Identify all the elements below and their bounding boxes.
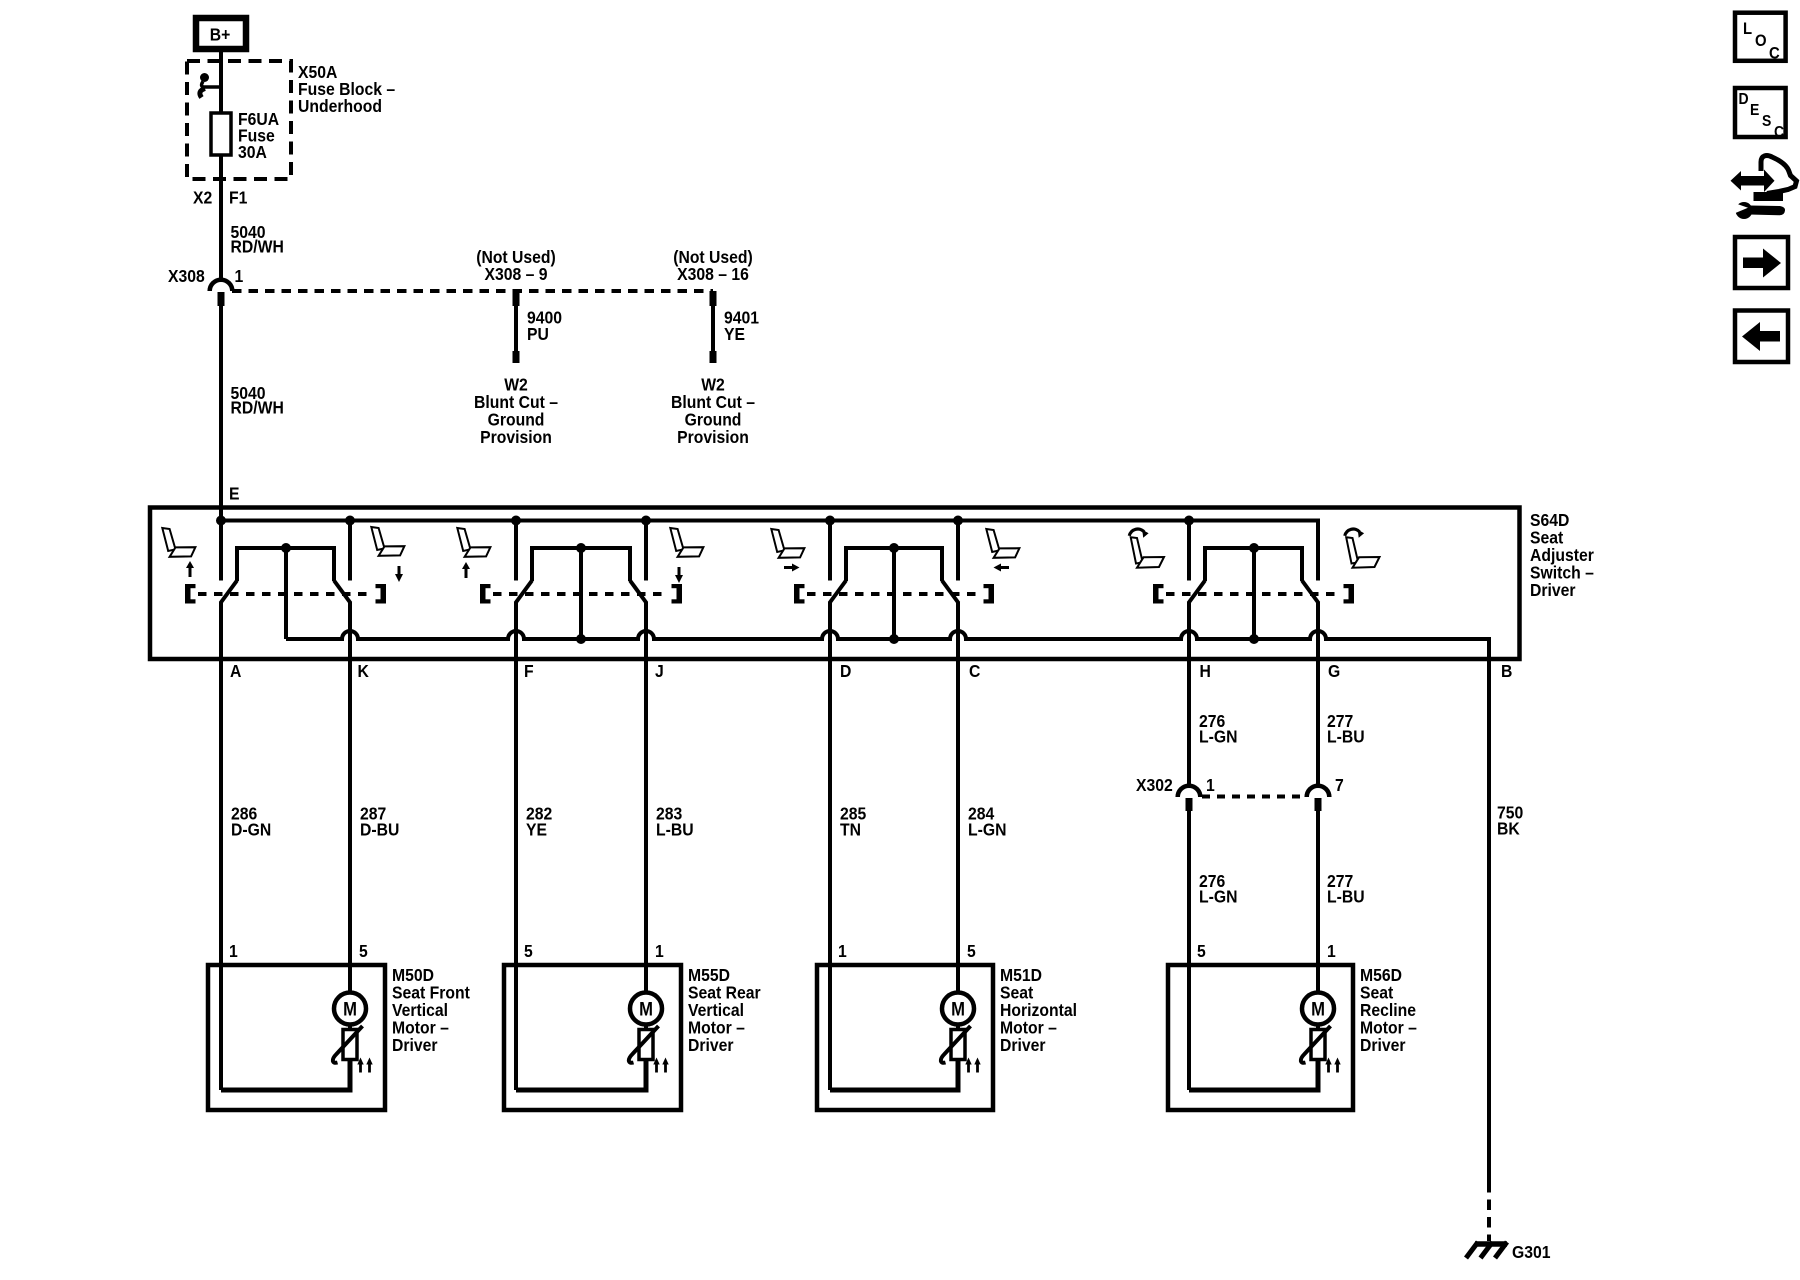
nav icon diagnostics (arrows + wrench) xyxy=(1731,156,1797,219)
svg-text:M: M xyxy=(343,998,357,1019)
B+ contact stub at x=350 xyxy=(348,521,352,581)
switch unit 3 pole to ground bus xyxy=(892,548,896,639)
svg-text:1: 1 xyxy=(655,941,664,961)
svg-text:5: 5 xyxy=(967,941,976,961)
connector X302 pin 1 symbol xyxy=(1178,786,1201,811)
down arrow (switch 1 right) xyxy=(395,566,403,582)
switch unit 4 right blade xyxy=(1302,581,1319,604)
rail junction at x=350 xyxy=(345,516,355,526)
switch unit 4 left actuator bracket xyxy=(1153,584,1164,604)
switch unit 3 carrier junction dot xyxy=(889,543,899,553)
svg-text:D-BU: D-BU xyxy=(360,820,399,840)
switch unit 1 actuator dashed link xyxy=(198,592,373,596)
wire 277 L-BU label (upper) xyxy=(1327,711,1365,747)
switch unit 2 ground bus junction dot xyxy=(576,634,586,644)
svg-text:PU: PU xyxy=(527,324,549,344)
svg-text:L-GN: L-GN xyxy=(1199,727,1237,747)
seat up icon (switch 1 left) xyxy=(162,528,195,557)
svg-text:C: C xyxy=(1769,45,1780,63)
switch unit 4 left blade xyxy=(1189,581,1206,604)
rail junction at x=516 xyxy=(511,516,521,526)
wire 276 L-GN label (upper) xyxy=(1199,711,1237,747)
switch unit 1 (front vertical) contact carrier xyxy=(237,548,334,581)
bussed connection hook inside fuse block xyxy=(200,73,221,98)
svg-text:Underhood: Underhood xyxy=(298,96,382,116)
svg-text:YE: YE xyxy=(526,820,547,840)
svg-text:G301: G301 xyxy=(1512,1242,1551,1262)
nav icon DESC xyxy=(1735,88,1786,141)
motor M50D internal wire xyxy=(221,1060,350,1091)
switch unit 3 left blade xyxy=(830,581,847,604)
motor M51D internal wire xyxy=(830,1060,958,1091)
B+ contact stub at x=1189 xyxy=(1187,521,1191,581)
svg-text:E: E xyxy=(229,484,240,504)
up arrow (switch 2 left) xyxy=(462,562,470,578)
wire from switch pin D xyxy=(828,602,832,1091)
motor M56D internal wire xyxy=(1189,1060,1318,1091)
svg-text:5: 5 xyxy=(359,941,368,961)
svg-text:30A: 30A xyxy=(238,142,267,162)
svg-text:B+: B+ xyxy=(210,25,231,45)
wire 750 BK label xyxy=(1497,803,1523,839)
svg-text:Provision: Provision xyxy=(677,427,749,447)
connector X308 pin 1 symbol xyxy=(210,280,233,306)
wire from B+ into fuse block xyxy=(219,49,223,281)
rail junction at x=958 xyxy=(953,516,963,526)
B+ contact stub at x=516 xyxy=(514,521,518,581)
switch unit 2 left actuator bracket xyxy=(480,584,491,604)
X302 internal dashed link xyxy=(1202,795,1305,799)
svg-text:M: M xyxy=(639,998,653,1019)
wire from switch pin J xyxy=(644,602,648,993)
motor M55D thermal arrows xyxy=(653,1058,668,1073)
up arrow (switch 1 left) xyxy=(186,561,194,577)
svg-text:F: F xyxy=(524,661,534,681)
svg-text:D-GN: D-GN xyxy=(231,820,271,840)
wire 283 L-BU label xyxy=(656,804,694,840)
connector X302 pin 7 symbol xyxy=(1307,786,1330,811)
motor M50D motor symbol M xyxy=(334,993,366,1025)
rail junction at x=1189 xyxy=(1184,516,1194,526)
rail junction at x=830 xyxy=(825,516,835,526)
switch unit 3 ground bus junction dot xyxy=(889,634,899,644)
svg-text:D: D xyxy=(1739,90,1749,108)
nav icon LOC xyxy=(1735,13,1786,63)
motor M50D thermal protector xyxy=(333,1025,363,1063)
svg-text:X302: X302 xyxy=(1136,775,1173,795)
svg-text:L-GN: L-GN xyxy=(968,820,1006,840)
motor M50D outline xyxy=(208,965,385,1110)
fuse F6UA 30A xyxy=(211,113,231,155)
svg-text:BK: BK xyxy=(1497,819,1520,839)
X308 pin 9 stub and wire 9400 xyxy=(513,291,520,363)
switch unit 3 right actuator bracket xyxy=(984,584,995,604)
svg-text:X308 – 9: X308 – 9 xyxy=(484,264,547,284)
svg-text:X308 – 16: X308 – 16 xyxy=(677,264,749,284)
switch unit 1 carrier junction dot xyxy=(281,543,291,553)
B+ contact stub at x=958 xyxy=(956,521,960,581)
switch unit 4 pole to ground bus xyxy=(1252,548,1256,639)
seat up icon (switch 2 left) xyxy=(457,528,490,557)
rail junction at x=221 xyxy=(216,516,226,526)
ground G301 symbol xyxy=(1466,1242,1507,1258)
wire from switch pin A xyxy=(219,602,223,1091)
switch unit 1 left actuator bracket xyxy=(185,584,196,604)
switch unit 1 pole to ground bus xyxy=(284,548,288,639)
fuse block X50A dashed outline xyxy=(187,61,291,179)
svg-text:1: 1 xyxy=(229,941,238,961)
motor M55D outline xyxy=(504,965,681,1110)
blunt cut W2 (9400) label xyxy=(474,375,558,448)
svg-text:H: H xyxy=(1200,661,1211,681)
B+ contact stub at x=646 xyxy=(644,521,648,581)
svg-text:K: K xyxy=(358,661,370,681)
wire from switch pin K xyxy=(348,602,352,993)
wire 5040 RD/WH label (lower) xyxy=(231,383,284,418)
svg-text:5: 5 xyxy=(524,941,533,961)
switch unit 4 (recline) contact carrier xyxy=(1205,548,1302,581)
switch unit 3 left actuator bracket xyxy=(794,584,805,604)
wire from switch pin G (277 L-BU upper) xyxy=(1316,602,1320,787)
svg-text:X308: X308 xyxy=(168,266,205,286)
switch unit 1 right blade xyxy=(334,581,351,604)
nav icon forward arrow xyxy=(1735,237,1788,288)
wire 286 D-GN label xyxy=(231,804,271,840)
wire from switch pin F xyxy=(514,602,518,1091)
switch unit 4 carrier junction dot xyxy=(1249,543,1259,553)
seat recline icon (switch 4 right) xyxy=(1345,529,1380,568)
motor M51D thermal protector xyxy=(941,1025,971,1063)
svg-text:Provision: Provision xyxy=(480,427,552,447)
svg-text:M: M xyxy=(951,998,965,1019)
rail junction at x=646 xyxy=(641,516,651,526)
motor M56D label xyxy=(1360,965,1417,1055)
switch unit 2 carrier junction dot xyxy=(576,543,586,553)
switch unit 4 right actuator bracket xyxy=(1344,584,1355,604)
switch S64D label xyxy=(1530,510,1594,600)
motor M55D thermal protector xyxy=(629,1025,659,1063)
svg-text:1: 1 xyxy=(235,266,244,286)
wire 284 L-GN label xyxy=(968,804,1006,840)
wire from switch pin C xyxy=(956,602,960,993)
motor M50D thermal arrows xyxy=(357,1058,372,1073)
wire 276 L-GN (lower) xyxy=(1187,811,1191,1090)
svg-text:O: O xyxy=(1755,32,1767,50)
svg-text:Driver: Driver xyxy=(392,1035,438,1055)
seat forward icon (switch 3 left) xyxy=(771,529,804,558)
wire 287 D-BU label xyxy=(360,804,399,840)
wire 277 L-BU (lower) xyxy=(1316,811,1320,993)
svg-text:YE: YE xyxy=(724,324,745,344)
seat down icon (switch 1 right) xyxy=(371,527,404,556)
battery feed symbol B+ xyxy=(196,18,246,49)
forward arrow (switch 3 left) xyxy=(784,564,800,572)
svg-text:S: S xyxy=(1762,112,1771,130)
svg-text:F1: F1 xyxy=(229,188,247,208)
svg-text:B: B xyxy=(1501,661,1512,681)
switch unit 1 left blade xyxy=(221,581,238,604)
svg-text:J: J xyxy=(655,661,664,681)
seat down icon (switch 2 right) xyxy=(670,528,703,557)
svg-text:G: G xyxy=(1328,661,1340,681)
switch unit 4 ground bus junction dot xyxy=(1249,634,1259,644)
motor M55D internal wire xyxy=(516,1060,646,1091)
wire 5040 RD/WH label (upper) xyxy=(231,222,284,257)
motor M51D motor symbol M xyxy=(942,993,974,1025)
fuse block X50A label xyxy=(298,62,395,116)
wire 277 L-BU label (lower) xyxy=(1327,871,1365,907)
seat rearward icon (switch 3 right) xyxy=(986,529,1019,558)
wire 750 BK dashed tail xyxy=(1487,1182,1491,1241)
svg-text:L-GN: L-GN xyxy=(1199,887,1237,907)
seat recline icon (switch 4 left) xyxy=(1129,529,1164,568)
switch ground bus to pin B xyxy=(286,631,1489,661)
wire from switch pin H (276 L-GN upper) xyxy=(1187,602,1191,787)
motor M51D thermal arrows xyxy=(965,1058,980,1073)
svg-text:Driver: Driver xyxy=(1000,1035,1046,1055)
svg-text:X2: X2 xyxy=(193,188,212,208)
svg-text:1: 1 xyxy=(1327,941,1336,961)
switch unit 3 (horizontal) contact carrier xyxy=(846,548,942,581)
switch unit 1 right actuator bracket xyxy=(376,584,387,604)
X308 pin 16 stub and wire 9401 xyxy=(710,291,717,363)
wire 750 BK from switch pin B xyxy=(1487,659,1491,1182)
svg-text:Driver: Driver xyxy=(1360,1035,1406,1055)
motor M56D thermal arrows xyxy=(1325,1058,1340,1073)
svg-text:1: 1 xyxy=(838,941,847,961)
svg-text:RD/WH: RD/WH xyxy=(231,237,284,257)
switch unit 2 actuator dashed link xyxy=(493,592,669,596)
svg-text:L: L xyxy=(1743,20,1752,38)
B+ rail inside switch xyxy=(221,521,1318,581)
B+ contact stub at x=830 xyxy=(828,521,832,581)
switch unit 3 actuator dashed link xyxy=(807,592,981,596)
rearward arrow (switch 3 right) xyxy=(994,564,1010,572)
motor M56D outline xyxy=(1168,965,1353,1110)
motor M56D thermal protector xyxy=(1301,1025,1331,1063)
down arrow (switch 2 right) xyxy=(675,567,683,583)
svg-text:1: 1 xyxy=(1206,775,1215,795)
switch S64D outline xyxy=(150,508,1520,660)
switch unit 4 actuator dashed link xyxy=(1166,592,1341,596)
svg-text:Driver: Driver xyxy=(688,1035,734,1055)
svg-text:RD/WH: RD/WH xyxy=(231,398,284,418)
svg-text:C: C xyxy=(1774,123,1784,141)
motor M51D outline xyxy=(817,965,993,1110)
svg-text:M: M xyxy=(1311,998,1325,1019)
svg-text:7: 7 xyxy=(1335,775,1344,795)
svg-text:E: E xyxy=(1750,101,1759,119)
switch unit 2 left blade xyxy=(516,581,533,604)
motor M51D label xyxy=(1000,965,1077,1055)
switch unit 2 right actuator bracket xyxy=(672,584,683,604)
(Not Used) X308-16 label xyxy=(673,247,753,284)
motor M56D motor symbol M xyxy=(1302,993,1334,1025)
svg-text:L-BU: L-BU xyxy=(1327,727,1365,747)
blunt cut W2 (9401) label xyxy=(671,375,755,448)
switch unit 3 right blade xyxy=(942,581,959,604)
wire 9401 YE label xyxy=(724,308,759,345)
wire 5040 RD/WH to switch xyxy=(219,304,223,522)
switch unit 2 pole to ground bus xyxy=(579,548,583,639)
(Not Used) X308-9 label xyxy=(476,247,556,284)
svg-text:L-BU: L-BU xyxy=(656,820,694,840)
B+ contact stub at x=221 xyxy=(219,521,223,581)
svg-text:Driver: Driver xyxy=(1530,580,1576,600)
nav icon back arrow xyxy=(1735,311,1788,363)
switch unit 2 (rear vertical) contact carrier xyxy=(532,548,630,581)
motor M50D label xyxy=(392,965,470,1055)
motor M55D motor symbol M xyxy=(630,993,662,1025)
svg-text:C: C xyxy=(969,661,980,681)
wire 9400 PU label xyxy=(527,308,562,345)
svg-text:TN: TN xyxy=(840,820,861,840)
motor M55D label xyxy=(688,965,761,1055)
svg-text:L-BU: L-BU xyxy=(1327,887,1365,907)
wire 285 TN label xyxy=(840,804,866,840)
wire 282 YE label xyxy=(526,804,552,840)
X308 internal dashed bus xyxy=(232,289,713,293)
wire 276 L-GN label (lower) xyxy=(1199,871,1237,907)
svg-text:5: 5 xyxy=(1197,941,1206,961)
svg-text:D: D xyxy=(840,661,851,681)
svg-text:A: A xyxy=(230,661,241,681)
switch unit 2 right blade xyxy=(630,581,647,604)
